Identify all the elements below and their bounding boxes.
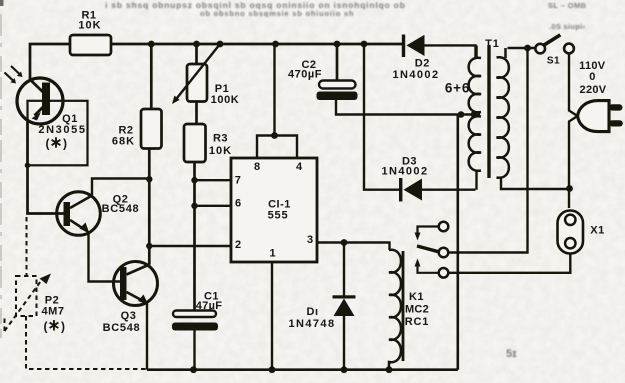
svg-text:470µF: 470µF	[288, 69, 322, 81]
light arrows into Q1	[5, 66, 23, 84]
resistor R3	[184, 124, 206, 162]
resistor R1	[70, 35, 111, 55]
svg-text:T1: T1	[485, 38, 500, 50]
wire Q2 collector	[92, 179, 149, 196]
svg-text:1N4002: 1N4002	[393, 69, 440, 81]
svg-text:47µF: 47µF	[196, 300, 223, 312]
wire relay NO to X1	[448, 254, 570, 273]
relay coil core	[402, 251, 405, 361]
relay K1 contacts	[439, 222, 449, 232]
node pin1-rail	[269, 366, 276, 373]
svg-text:0: 0	[589, 71, 595, 83]
node C1-rail	[190, 366, 197, 373]
svg-text:BC548: BC548	[102, 203, 140, 215]
capacitor C1 (47uF)	[173, 311, 216, 318]
svg-text:CI-1: CI-1	[268, 198, 291, 210]
svg-text:SL – OMB: SL – OMB	[548, 1, 587, 10]
node D1-rail	[341, 366, 348, 373]
node on rail (C2 feed)	[334, 41, 341, 48]
svg-text:X1: X1	[590, 224, 604, 236]
wire pin7	[195, 179, 232, 181]
svg-text:7: 7	[235, 174, 241, 186]
svg-text:68K: 68K	[112, 135, 135, 147]
svg-text:10K: 10K	[78, 19, 101, 31]
wire pin3 to relay coil	[317, 243, 390, 251]
op-amp U1 (CI-1 555 box)	[231, 158, 317, 262]
svg-text:2N3055: 2N3055	[38, 124, 86, 136]
svg-text:1N4002: 1N4002	[382, 166, 429, 178]
svg-text:S1: S1	[547, 55, 560, 66]
wire NO throw with arrow	[418, 266, 439, 273]
node on rail (P1 wiper)	[217, 41, 224, 48]
node pin2 net	[146, 243, 152, 249]
wire Q3 emitter down	[146, 304, 148, 370]
transformer T1 secondary lower winding	[469, 116, 481, 171]
transformer T1 core	[487, 45, 490, 178]
node on rail (555 pin8/4 feed)	[272, 41, 279, 48]
wire 555 pins 8/4 bracket	[257, 136, 297, 159]
transistor Q2 (BC548)	[57, 192, 101, 236]
svg-text:D2: D2	[415, 57, 430, 69]
svg-text:): )	[61, 319, 65, 333]
transistor Q3 (BC548)	[114, 262, 158, 306]
svg-text:5ɪ: 5ɪ	[506, 348, 517, 360]
svg-text:1N4748: 1N4748	[289, 318, 336, 330]
svg-text:8: 8	[254, 161, 260, 173]
wire pin2	[149, 245, 231, 247]
svg-text:.0S siupi›: .0S siupi›	[549, 22, 586, 31]
svg-text:2: 2	[235, 239, 241, 251]
svg-text:1: 1	[269, 247, 275, 259]
node on rail (D3 feed)	[361, 41, 368, 48]
wire pin6	[195, 205, 232, 207]
svg-text:(: (	[44, 319, 48, 333]
svg-text:555: 555	[268, 210, 289, 222]
svg-text:110V: 110V	[579, 60, 606, 72]
svg-text:(: (	[46, 137, 50, 151]
transformer T1 primary winding	[497, 48, 509, 178]
node on rail (R2 tap)	[148, 41, 155, 48]
node coil-rail	[386, 366, 393, 373]
wire R3 bottom to C1	[193, 162, 196, 311]
capacitor C2 (470uF)	[336, 44, 339, 81]
relay armature	[417, 246, 439, 252]
Q1 label box	[28, 101, 88, 166]
diode D1 (1N4748)	[343, 243, 345, 370]
svg-text:6+6: 6+6	[445, 81, 470, 96]
svg-text:BC548: BC548	[103, 322, 141, 334]
svg-text:R3: R3	[213, 133, 228, 145]
wire T1 primary bottom	[501, 178, 569, 190]
diode D3 (1N4002)	[364, 44, 399, 190]
svg-text:6: 6	[235, 197, 241, 209]
node tap-winding	[471, 111, 478, 118]
svg-text:10K: 10K	[209, 145, 232, 157]
node pin2 net top	[146, 176, 152, 182]
wire Q1 emitter down	[28, 119, 64, 214]
switch S1	[535, 44, 545, 54]
potentiometer P1	[195, 44, 198, 64]
node at Q1 box corner	[25, 163, 31, 169]
wire NC throw with arrow	[418, 227, 439, 234]
svg-text:ob obsbno sbsqmsie sb ohiuo: ob obsbno sbsqmsie sb ohiuoiio sh	[200, 9, 354, 18]
wire relay common to S1	[448, 48, 527, 253]
scan edge artifact left	[0, 14, 2, 338]
node on rail (P1 tap)	[193, 41, 200, 48]
scan corner speck	[0, 0, 4, 6]
socket X1	[558, 211, 584, 254]
wire pin1 down	[271, 262, 273, 370]
mains plug with cord	[569, 54, 578, 209]
transformer T1 secondary upper winding	[469, 46, 481, 113]
node pin6	[191, 203, 197, 209]
transistor Q1 (phototransistor 2N3055)	[17, 78, 63, 124]
svg-text:P2: P2	[45, 294, 59, 306]
wire T1 secondary bottom lead	[475, 171, 477, 190]
potentiometer P2 (dashed LDR/pot)	[5, 217, 147, 369]
wire top rail	[30, 44, 402, 80]
wire C2 bottom to T1 center tap	[336, 100, 480, 115]
svg-text:220V: 220V	[580, 84, 607, 96]
svg-text:100K: 100K	[211, 94, 240, 106]
relay K1 coil	[389, 250, 401, 370]
wire Q2 emitter to Q3 base	[89, 233, 121, 282]
ghost bleed-through text top	[105, 0, 587, 360]
svg-text:MC2: MC2	[405, 304, 429, 316]
svg-text:): )	[63, 137, 67, 151]
svg-text:K1: K1	[409, 291, 424, 303]
svg-text:Q3: Q3	[121, 310, 137, 322]
wire R2 bottom to Q3 collector	[148, 149, 151, 265]
resistor R2	[150, 44, 153, 109]
svg-text:4: 4	[296, 161, 303, 173]
svg-text:RC1: RC1	[405, 316, 429, 328]
node tap-ground	[458, 111, 465, 118]
node pin7	[191, 177, 197, 183]
svg-text:4M7: 4M7	[42, 306, 65, 318]
wire T1 primary top to S1	[508, 47, 537, 49]
wire bottom rail	[147, 115, 458, 370]
svg-text:Dı: Dı	[307, 306, 319, 318]
svg-text:3: 3	[307, 234, 313, 246]
diode D2 (1N4002)	[402, 35, 405, 58]
